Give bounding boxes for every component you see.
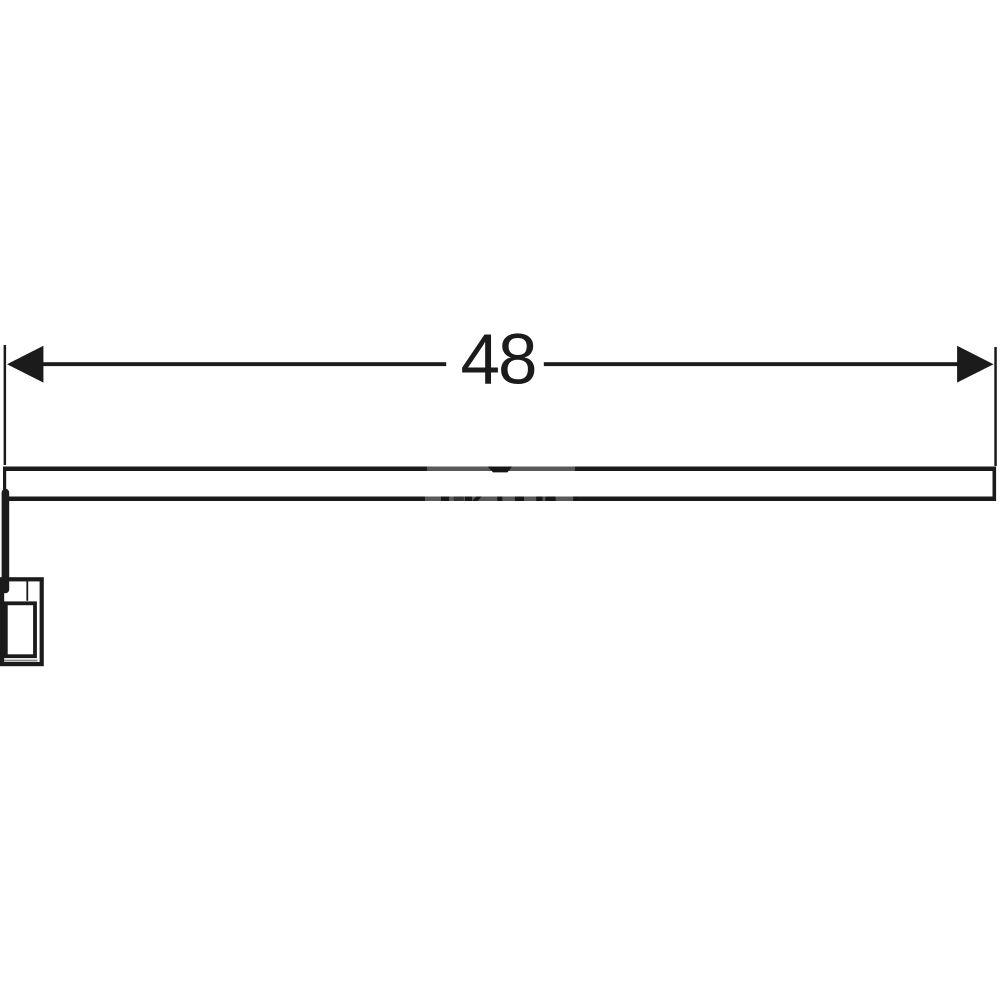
watermark grey segment on top line bbox=[427, 467, 575, 472]
dimension arrowhead right bbox=[957, 346, 993, 383]
dimension line right segment bbox=[544, 362, 958, 366]
watermark dark notch on top line bbox=[488, 467, 513, 473]
extension line left bbox=[4, 345, 7, 465]
rail bar top line bbox=[3, 467, 996, 472]
rail bar right end edge bbox=[993, 467, 997, 502]
extension line right bbox=[994, 347, 997, 466]
rail bar bottom line bbox=[5, 497, 996, 502]
wall bracket arm bbox=[2, 489, 10, 594]
svg-text:48: 48 bbox=[461, 320, 536, 399]
rail bar left end edge bbox=[3, 467, 6, 493]
bracket clamp outer body bbox=[2, 579, 42, 664]
dimension arrowhead left bbox=[7, 346, 43, 383]
bracket faint bottom plate line bbox=[4, 660, 38, 662]
bracket divider line bbox=[26, 581, 28, 601]
dimension line left segment bbox=[43, 362, 446, 366]
watermark grey segment on bottom line bbox=[425, 497, 575, 502]
watermark dashes on bottom line bbox=[441, 497, 578, 502]
bracket inner insert rectangle bbox=[6, 603, 35, 656]
